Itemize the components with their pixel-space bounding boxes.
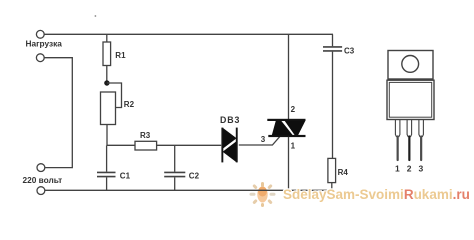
terminal X2 (load lower) xyxy=(36,54,44,62)
wire DB3 to gate xyxy=(239,137,280,145)
wire R2 bottom lead xyxy=(106,125,108,146)
wire bottom net xyxy=(45,189,333,191)
svg-text:1: 1 xyxy=(291,141,296,150)
svg-text:C2: C2 xyxy=(189,171,200,180)
svg-text:Нагрузка: Нагрузка xyxy=(26,39,63,49)
diac DB3 xyxy=(220,115,240,162)
svg-text:2: 2 xyxy=(291,105,296,114)
resistor R3 xyxy=(135,131,157,150)
capacitor C2 xyxy=(164,145,199,190)
potentiometer R2 xyxy=(101,83,135,125)
terminal X1 (load upper) xyxy=(36,30,44,38)
resistor R1 xyxy=(103,42,126,66)
TO-220 mounting hole xyxy=(402,56,419,73)
capacitor C1 xyxy=(97,145,131,190)
svg-text:DB3: DB3 xyxy=(220,115,240,125)
svg-text:R3: R3 xyxy=(140,131,151,140)
svg-text:C3: C3 xyxy=(344,46,355,55)
triac VS1 xyxy=(267,119,305,137)
watermark text SdelaySam-SvoimiRukami.ru xyxy=(283,187,470,202)
watermark sun logo xyxy=(250,182,276,207)
wire node line to DB3 xyxy=(107,144,221,146)
resistor R4 xyxy=(328,158,348,182)
capacitor C3 xyxy=(323,34,355,55)
terminal X4 (220V lower) xyxy=(37,187,45,195)
wire X2 to X3 xyxy=(44,58,72,168)
svg-text:220 вольт: 220 вольт xyxy=(23,175,63,185)
svg-text:3: 3 xyxy=(261,135,266,144)
TO-220 pin 1 xyxy=(395,120,400,160)
junction node A xyxy=(104,80,109,85)
svg-text:3: 3 xyxy=(419,164,424,174)
svg-text:2: 2 xyxy=(407,164,412,174)
wire R1 to node A xyxy=(106,66,108,84)
svg-text:1: 1 xyxy=(395,164,400,174)
svg-text:R1: R1 xyxy=(115,51,126,60)
wire R1 top lead xyxy=(106,34,108,42)
wire R4 bottom lead xyxy=(331,183,333,191)
TO-220 package tab xyxy=(388,51,433,80)
svg-text:C1: C1 xyxy=(120,172,131,181)
wire MT1 lead xyxy=(288,137,290,191)
TO-220 pin 2 xyxy=(407,120,412,160)
svg-text:SdelaySam-SvoimiRukami.ru: SdelaySam-SvoimiRukami.ru xyxy=(283,187,470,202)
svg-text:R2: R2 xyxy=(124,100,135,109)
TO-220 body xyxy=(387,80,434,119)
TO-220 pin 3 xyxy=(419,120,424,160)
wire MT2 lead xyxy=(288,34,290,119)
wire C3 to R4 xyxy=(332,52,334,159)
svg-text:R4: R4 xyxy=(338,168,349,177)
wire top net xyxy=(44,33,333,35)
terminal X3 (220V upper) xyxy=(37,164,45,172)
